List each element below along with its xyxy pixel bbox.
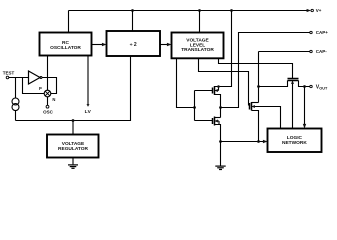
wire gate to Q2 [195,120,213,122]
wire translator bottom left to common gate node [177,58,195,108]
wire bottom rail across to divider bottom [16,56,131,121]
terminal VOUT circle [310,85,312,87]
wire TEST down to current source [15,78,17,99]
wire RC oscillator bottom to LV [87,56,89,105]
wire TEST to buffer input [9,77,29,79]
wire CAP- rail [259,51,310,53]
node junction VOUT to logic network [303,85,306,88]
transistor Q3 NMOS switch [250,102,281,142]
wire top V+ rail [69,10,310,12]
svg-text:TEST: TEST [3,71,15,76]
wire common gate vertical [194,91,196,121]
current source I2 circle [12,104,19,111]
terminal LV arrowhead [87,104,90,107]
arrowhead logic network input [263,140,268,143]
wire top rail drop to voltage level translator top [199,11,201,33]
box logic network [268,129,322,153]
wire CAP- vertical down to Q3 drain [258,52,260,103]
svg-text:P: P [39,86,42,91]
wire translator bottom right down right to Q5 gate [219,58,293,79]
node junction CAP- column on logic input wire [257,140,260,143]
transistor Q2 NMOS switch [213,117,221,142]
terminal V+ arrowhead [307,9,311,12]
svg-text:OSC: OSC [43,109,54,114]
svg-text:VOUT: VOUT [316,85,328,91]
current source I1 circle [12,98,19,105]
wire ground stem right [220,142,222,166]
arrowhead into translator [167,43,172,46]
wire VOUT junction down to logic network [304,87,306,127]
ground symbol right [215,166,225,169]
OSC pad crossed circle [44,90,51,97]
wire V+ vertical down to Q1 drain [215,11,232,87]
node junction CAP- to Q5 left [257,85,260,88]
svg-text:REGULATOR: REGULATOR [58,146,88,152]
node junction top rail to Q1 drain column [230,9,233,12]
wire translator bottom mid down right to Q3 gate [199,58,250,106]
wire node to logic network input [221,141,266,143]
box RC oscillator [40,33,92,56]
wire RC oscillator bottom to OSC pad top [47,56,49,91]
wire pad bottom to OSC terminal [47,97,49,106]
wire current source down to bottom rail [15,110,17,120]
wire regulator top stub [72,121,74,135]
arrowhead into logic network top [303,124,306,129]
op-amp buffer A1 triangle [29,71,41,84]
node junction top rail to translator [198,9,201,12]
wire gate to Q1 [195,90,213,92]
svg-text:CAP+: CAP+ [316,30,329,35]
wire pad loop from TEST down and right [23,78,45,94]
svg-text:CAP-: CAP- [316,49,328,54]
transistor Q1 PMOS switch [213,85,232,107]
arrowhead into divider [102,43,107,46]
terminal CAP+ circle [310,31,312,33]
node junction Q1 source CAP+ [219,106,222,109]
svg-text:TRANSLATOR: TRANSLATOR [181,47,214,53]
svg-text:V+: V+ [316,8,322,13]
wire RC oscillator output to divider [92,44,105,46]
wire regulator bottom stub to ground [72,158,74,165]
terminal V+ circle [311,9,313,11]
buffer output bubble [40,77,42,79]
svg-text:LV: LV [85,109,92,115]
transistor Q5 output switch [259,79,310,129]
terminal CAP- circle [310,50,312,52]
wire divider output to translator [160,44,169,46]
terminal OSC circle [46,105,49,108]
node junction common gate [193,106,196,109]
svg-text:÷ 2: ÷ 2 [130,42,137,48]
node junction bottom rail to voltage regulator [72,119,75,122]
wire V+ rail drop to RC oscillator top [68,11,70,33]
svg-text:OSCILLATOR: OSCILLATOR [50,45,81,51]
wire Q1 source to Q2 drain [220,108,222,118]
svg-text:NETWORK: NETWORK [282,140,307,146]
ground symbol left [68,165,78,168]
terminal TEST circle [6,76,9,79]
box voltage regulator [47,135,99,158]
wire node to CAP+ rail [221,33,310,108]
node junction Q2 source ground [219,140,222,143]
box divide-by-2 [107,31,161,56]
wire top rail drop to divider top [132,11,134,32]
wire buffer output to pad right loop [42,78,57,94]
svg-text:N: N [52,97,55,102]
box voltage level translator [172,33,224,59]
node junction top rail to divider [131,9,134,12]
